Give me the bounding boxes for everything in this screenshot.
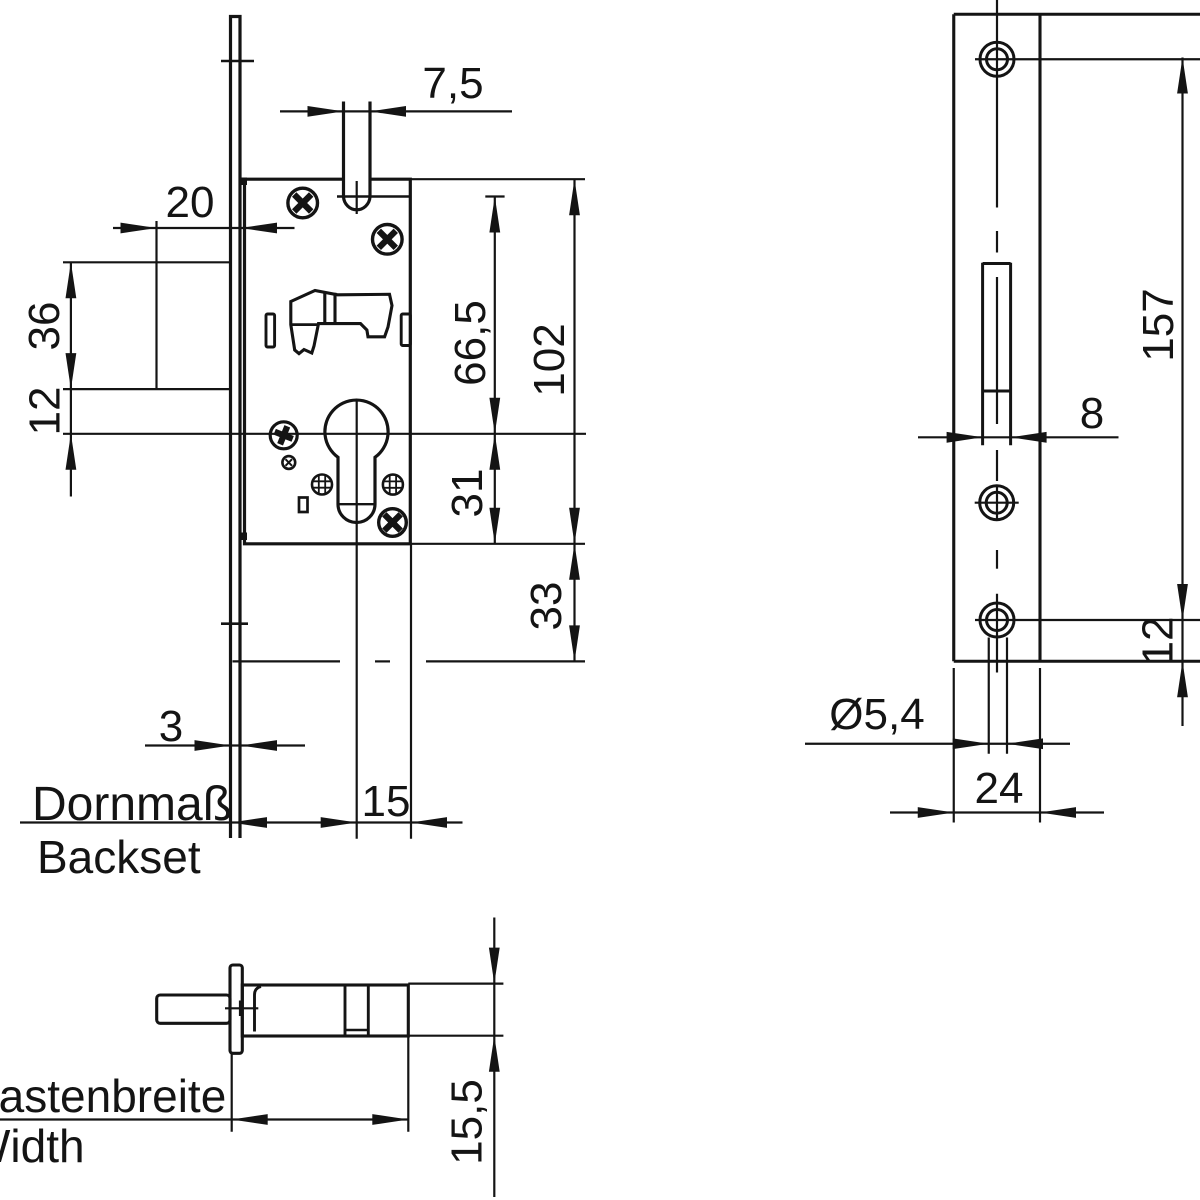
svg-text:3: 3 xyxy=(159,702,183,751)
svg-text:33: 33 xyxy=(522,582,571,631)
svg-text:20: 20 xyxy=(166,178,215,227)
svg-text:31: 31 xyxy=(443,469,492,518)
screw C left of cylinder xyxy=(270,422,297,449)
dimension diameter 5,4 xyxy=(805,743,1070,745)
plate centerline dashes xyxy=(996,0,998,673)
case inner wall line xyxy=(255,987,262,1032)
dimension 7,5 xyxy=(280,110,512,112)
svg-text:Ø5,4: Ø5,4 xyxy=(829,690,924,739)
svg-text:Kastenbreite: Kastenbreite xyxy=(0,1070,226,1122)
center cross tick xyxy=(225,1007,258,1009)
case corner weld mark bottom xyxy=(242,533,248,541)
dimension 15,5 xyxy=(408,918,503,1198)
svg-text:102: 102 xyxy=(525,323,574,396)
knurled hole left xyxy=(312,475,332,495)
cylinder vertical centerline xyxy=(356,400,358,839)
svg-text:15: 15 xyxy=(362,777,411,826)
screw top extension line xyxy=(1019,58,1200,60)
dimension 3 xyxy=(145,744,305,746)
slider divider line xyxy=(291,323,319,326)
right guide slot xyxy=(401,314,410,346)
svg-text:15,5: 15,5 xyxy=(443,1079,492,1165)
svg-text:12: 12 xyxy=(21,387,70,436)
case top view rectangle xyxy=(242,985,408,1036)
case top edge extension line xyxy=(410,178,585,180)
faceplate edge-on bar xyxy=(231,17,241,839)
latch centerline xyxy=(356,181,358,214)
svg-text:8: 8 xyxy=(1080,389,1104,438)
screw D lower xyxy=(379,509,407,537)
slider stripe line 1 xyxy=(323,292,326,324)
dimension 24 xyxy=(890,668,1104,823)
backset dimension line with Dornmass label xyxy=(20,544,463,839)
dimension 8 xyxy=(918,436,1119,438)
cam connector xyxy=(345,1029,368,1032)
latch bolt (protruding top) xyxy=(344,102,371,210)
svg-text:24: 24 xyxy=(975,764,1024,813)
euro profile cylinder hole xyxy=(325,400,388,522)
svg-text:12: 12 xyxy=(1134,617,1183,666)
faceplate break tick top xyxy=(221,60,254,63)
screw A top-left xyxy=(288,188,318,218)
slider mechanism piece xyxy=(291,291,392,354)
cylinder cam verticals xyxy=(344,985,347,1036)
svg-text:66,5: 66,5 xyxy=(446,300,495,386)
dimension 20 xyxy=(113,221,295,389)
cylinder chord line xyxy=(339,503,375,505)
dimension 157 / 12 line xyxy=(1181,58,1183,727)
plate screw middle xyxy=(975,486,1019,520)
svg-text:Width: Width xyxy=(0,1120,85,1172)
svg-text:36: 36 xyxy=(20,302,69,351)
svg-text:Backset: Backset xyxy=(37,831,201,883)
horizontal centerline through cylinder xyxy=(63,433,586,435)
small pin circle xyxy=(282,456,295,469)
dimension 36 / 12 extension lines xyxy=(63,262,231,496)
dimension 12 arrow xyxy=(66,434,77,470)
left guide slot xyxy=(266,314,275,347)
faceplate plate outline xyxy=(954,14,1200,661)
dimension 36 arrows xyxy=(66,262,77,298)
width dimension line Kastenbreite xyxy=(0,1036,408,1132)
knurled hole right xyxy=(383,475,403,495)
case corner weld mark top xyxy=(242,178,248,186)
small rectangle port xyxy=(299,498,308,513)
chain line below case xyxy=(233,660,341,662)
svg-text:7,5: 7,5 xyxy=(422,59,483,108)
slider stripe line 2 xyxy=(333,293,336,324)
plate screw top xyxy=(975,42,1019,76)
faceplate strip top view xyxy=(230,965,242,1053)
latch tip chord line xyxy=(337,195,410,198)
dimension 102 / 33 line xyxy=(573,179,575,661)
screw hole projection lines xyxy=(988,638,990,754)
faceplate break tick lower xyxy=(221,622,248,625)
svg-text:Dornmaß: Dornmaß xyxy=(32,778,232,831)
lock case rectangle xyxy=(245,179,411,544)
latch bolt top view xyxy=(157,995,230,1023)
latch slot in plate xyxy=(983,263,1011,446)
case bottom edge extension line xyxy=(410,543,585,545)
svg-text:157: 157 xyxy=(1134,288,1183,361)
dimension 66,5 / 31 line xyxy=(485,197,504,544)
screw B upper-middle xyxy=(373,225,403,255)
plate screw bottom xyxy=(980,603,1014,637)
screw bottom extension line xyxy=(975,619,1200,621)
